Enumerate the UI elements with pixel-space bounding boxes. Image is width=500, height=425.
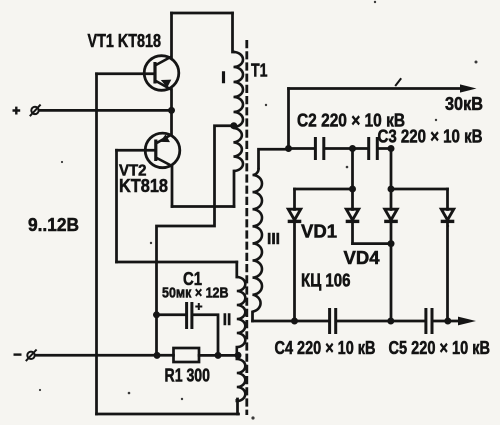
wire diode top rail left <box>295 188 353 191</box>
transformer winding III <box>253 168 263 312</box>
capacitor C3 <box>369 137 378 160</box>
node winding I tap <box>230 122 237 129</box>
wire winding III bottom lead <box>251 312 254 321</box>
wire - supply rail <box>36 354 174 357</box>
wire VT2 base vertical run <box>115 150 118 262</box>
wire VD4 column <box>446 189 449 321</box>
wire VT2 emitter to node <box>170 110 173 134</box>
transistor VT2 <box>145 133 180 168</box>
node bottom rail VD4 <box>444 318 451 325</box>
node C2 C3 junction <box>349 145 356 152</box>
transformer winding I upper half <box>234 52 244 127</box>
terminal - input <box>26 350 37 362</box>
wire C2 to C3 <box>325 147 367 150</box>
wire base to winding II top <box>117 261 237 264</box>
resistor R1 <box>174 348 200 362</box>
tick mark above arrow <box>395 78 401 86</box>
arrowhead bottom output <box>458 317 476 326</box>
C1 polarity plus <box>195 303 202 310</box>
svg-text:III: III <box>267 231 280 248</box>
node VD2 VD3 junction <box>388 240 395 247</box>
wire 30kV output vertical <box>287 89 290 149</box>
svg-text:C4 220 × 10 кВ: C4 220 × 10 кВ <box>275 338 376 358</box>
wire bottom rail left <box>253 320 329 323</box>
wire 30kV arrow line <box>289 87 460 90</box>
wire VD3 column <box>390 189 393 321</box>
wire C2 left <box>289 147 315 150</box>
node C1 right at R1 <box>215 352 222 359</box>
wire VT2 collector vertical <box>171 166 174 207</box>
diode VD3 <box>384 209 398 221</box>
node diode rail right <box>388 186 395 193</box>
wire VT2 collector to winding I bottom <box>172 205 234 208</box>
capacitor C1 <box>187 302 192 329</box>
node C2 left junction <box>285 145 292 152</box>
wire VD2 to VD3 <box>353 242 392 245</box>
svg-text:T1: T1 <box>251 60 268 81</box>
transformer winding I lower half <box>234 128 244 171</box>
wire VD2 column <box>351 189 354 244</box>
wire top rail <box>172 12 233 15</box>
node bottom rail VD3 <box>387 318 394 325</box>
wire winding II bottom lead <box>236 399 239 414</box>
capacitor C2 <box>315 137 323 160</box>
svg-text:VD1: VD1 <box>301 222 337 242</box>
svg-text:II: II <box>223 310 232 329</box>
node C3 right junction <box>388 145 395 152</box>
svg-text:R1 300: R1 300 <box>165 366 211 386</box>
node minus rail / tap <box>154 352 161 359</box>
transistor VT1 <box>144 56 179 91</box>
wire VT1 base vertical run <box>95 74 98 414</box>
node bottom rail VD1 <box>291 318 298 325</box>
svg-text:KT818: KT818 <box>119 176 168 196</box>
node diode rail left <box>349 186 356 193</box>
minus sign <box>14 353 22 355</box>
wire C3 node down <box>390 149 393 190</box>
wire winding I bottom lead <box>233 171 236 207</box>
svg-text:C3 220 × 10 кВ: C3 220 × 10 кВ <box>378 127 483 147</box>
wire winding I top lead <box>233 13 234 52</box>
svg-text:9..12В: 9..12В <box>28 214 79 235</box>
transformer T1 core <box>245 40 248 415</box>
wire C1 left <box>157 313 186 316</box>
wire bottom run <box>97 413 239 416</box>
svg-text:I: I <box>221 68 226 87</box>
wire winding I tap run <box>157 126 234 356</box>
node emitter junction <box>168 107 175 114</box>
wire R1 right to winding II tap <box>199 354 237 357</box>
wire VT1 collector <box>170 13 173 57</box>
wire C1 right <box>193 315 218 356</box>
node winding II tap <box>235 352 242 359</box>
wire diode top rail right <box>391 188 448 191</box>
wire bottom rail right <box>433 320 457 323</box>
wire + supply rail <box>39 109 172 112</box>
arrowhead 30kV output <box>460 84 477 92</box>
capacitor C4 <box>330 308 336 334</box>
terminal + input <box>30 105 41 117</box>
plus sign <box>13 107 21 115</box>
svg-text:VT1 KT818: VT1 KT818 <box>88 30 162 51</box>
wire C3 right <box>379 147 391 150</box>
svg-text:VD4: VD4 <box>344 248 380 268</box>
wire winding III top lead <box>259 149 289 168</box>
svg-text:50мк × 12В: 50мк × 12В <box>162 286 229 302</box>
diode VD1 <box>288 209 302 221</box>
wire C2C3 node down <box>351 149 354 190</box>
capacitor C5 <box>426 308 432 334</box>
node C1 left <box>153 311 160 318</box>
svg-text:КЦ 106: КЦ 106 <box>301 271 351 291</box>
diode VD2 <box>346 209 360 221</box>
wire VT1 base <box>97 72 155 75</box>
wire VT1 emitter to node <box>170 90 173 111</box>
svg-text:30кВ: 30кВ <box>445 93 483 114</box>
diode VD4 <box>441 209 455 221</box>
wire VT2 base <box>117 149 155 152</box>
transformer winding II upper <box>237 277 246 401</box>
wire VD1 column <box>293 189 296 321</box>
wire winding II top lead <box>235 262 238 277</box>
wire bottom rail middle <box>337 320 424 323</box>
svg-text:C5 220 × 10 кВ: C5 220 × 10 кВ <box>389 338 491 358</box>
